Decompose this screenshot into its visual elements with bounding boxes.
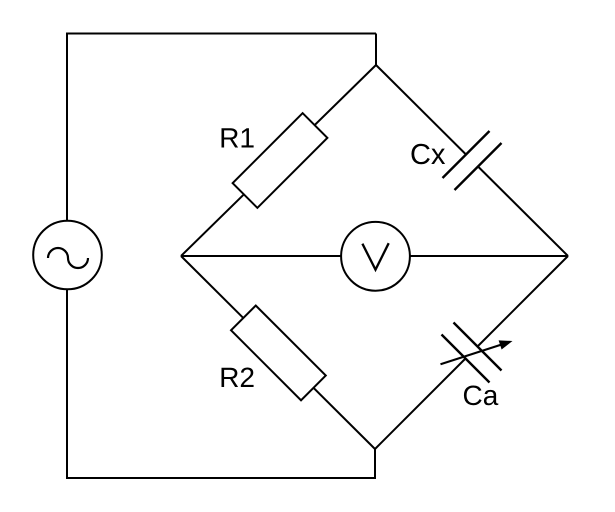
wire middle horizontal (node A to node C through meter) <box>181 255 568 257</box>
voltmeter V needle glyph <box>362 243 388 270</box>
capacitor Cx label <box>411 144 445 165</box>
wire bottom stub <box>374 449 376 479</box>
wire bottom horizontal <box>66 477 375 479</box>
resistor R1 label <box>222 128 254 147</box>
capacitor Cx plate 1 <box>443 131 490 178</box>
AC source sine wave <box>48 248 88 268</box>
voltmeter V circle <box>341 222 410 291</box>
wire left vertical upper <box>66 33 68 222</box>
resistor R1 body <box>233 113 328 208</box>
wire top horizontal <box>67 33 376 35</box>
resistor R2 label <box>222 367 254 387</box>
wire left vertical lower <box>66 289 68 479</box>
resistor R2 body <box>231 306 326 401</box>
capacitor Ca plate 1 <box>454 323 502 371</box>
capacitor Cx plate 2 <box>455 143 502 190</box>
AC source circle <box>33 221 102 290</box>
wire arm bottom-right upper segment (Ca to node C) <box>478 256 569 347</box>
wire arm bottom-right lower segment (node B to Ca) <box>375 359 466 450</box>
capacitor Ca label <box>464 385 498 405</box>
wire arm top-right upper segment (node D to Cx) <box>376 65 466 155</box>
wire arm top-left (node A to node D) <box>181 65 376 256</box>
wire arm top-right lower segment (Cx to node C) <box>478 167 568 257</box>
wire top stub <box>375 34 377 66</box>
capacitor Ca plate 2 <box>442 335 490 383</box>
capacitor Ca variable arrow <box>441 340 513 364</box>
wire arm bottom-left (node A to node B) <box>181 256 375 449</box>
